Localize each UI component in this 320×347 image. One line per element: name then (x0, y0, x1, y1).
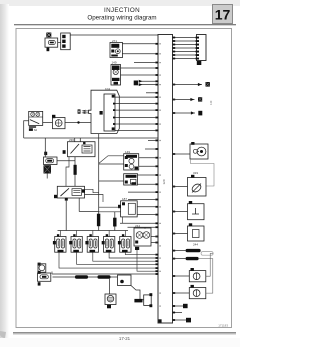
component Q: sensor block lower (118, 197, 137, 217)
bus wire main feed (24, 137, 158, 139)
pin U1 left 10 (155, 103, 158, 105)
component E: throttle position switch (29, 111, 43, 131)
wire A to solenoid (58, 42, 61, 44)
pin U1 left 21 (155, 191, 158, 193)
wire to U1 pin 27 (128, 226, 156, 228)
right side wire y84.5 to terminal (173, 82, 210, 87)
coil symbol box with X (44, 165, 52, 173)
wire N to splice loop 1 (85, 189, 99, 192)
wire F to G with junction (65, 122, 91, 124)
svg-text:17: 17 (215, 7, 231, 23)
pin U1 left 31 (155, 260, 158, 262)
wire to U1 pin 12 (115, 109, 155, 111)
wire U1 to X1 7 (173, 58, 197, 60)
ground block below connector (197, 61, 202, 65)
component T: ignition coil unit (38, 263, 51, 286)
pin U1 left 26 (155, 226, 158, 228)
pin number mark 13 (159, 206, 161, 207)
wire N loop 3 (79, 211, 99, 213)
wire to U1 pin 16 (148, 139, 155, 141)
wire relay2 to ECU (77, 252, 156, 264)
wire to U1 pin 18 (139, 157, 156, 159)
diagram outer frame (16, 29, 232, 328)
pin U1 left 8 (155, 92, 158, 94)
wire to U1 pin 2 (122, 43, 155, 45)
wire K output (57, 160, 75, 162)
svg-text:244: 244 (193, 243, 198, 247)
pin U1 left 29 (155, 254, 158, 256)
wire idle motor to AC unit loop (191, 159, 215, 186)
pin number mark 18 (159, 293, 161, 294)
pin number mark 16 (159, 258, 161, 259)
wire loop sensor 1 to splice (206, 253, 213, 276)
svg-text:62: 62 (34, 128, 38, 132)
oxygen sensor unit 2 (173, 259, 213, 299)
pin U1 left 23 (155, 206, 158, 208)
wire U1 to X1 2 (173, 40, 197, 42)
component cluster A: fuse and solenoid top-left (45, 33, 70, 52)
ECU inner pin number marks (159, 43, 161, 307)
wire Q bottom to ECU feed (122, 217, 124, 223)
wire S6 top feed (144, 227, 146, 229)
relay S2 (69, 231, 82, 253)
svg-text:Operating wiring diagram: Operating wiring diagram (87, 15, 156, 22)
pin number mark 12 (159, 192, 161, 193)
component J: supply relay (63, 138, 95, 157)
wire bus to relay J second (74, 138, 76, 142)
relay S4 (102, 231, 115, 253)
wire to U1 pin 28 (151, 236, 158, 238)
component K: relay with coil (44, 152, 58, 179)
vertical wire K to bus (44, 138, 46, 157)
node H: double arrow reference terminal (78, 109, 89, 114)
pin U1 left 20 (155, 183, 158, 185)
wire to U1 pin 26 (120, 222, 155, 224)
component G: main relay/connector block (89, 87, 120, 134)
wire U1 to X1 1 (173, 37, 197, 39)
wire relay4 to ECU (109, 252, 155, 258)
pin number mark 14 (159, 223, 161, 224)
pin U1 left 27 (155, 236, 158, 238)
pin U1 right 8 (173, 84, 176, 86)
splice R2 thick vertical (113, 212, 116, 231)
pin U1 left 32 (155, 263, 158, 265)
bundle wires relays to ECU (52, 250, 155, 274)
component B: pressure sensor block (110, 39, 123, 58)
wire relay3 to ECU (93, 252, 156, 261)
pin number mark 17 (159, 271, 161, 272)
wire E to F (43, 122, 53, 124)
splice connector 1 (75, 275, 88, 279)
diagnostic connector X1 (196, 35, 206, 66)
wire ECU to splice bar 1 (173, 250, 186, 252)
wires from N down (65, 201, 67, 231)
pin number mark 19 (159, 306, 161, 307)
svg-text:244: 244 (135, 224, 140, 228)
svg-text:271: 271 (112, 39, 117, 43)
pin number mark 2 (159, 53, 161, 54)
right side wire y113 to terminal (173, 111, 203, 116)
pin U1 left 28 (155, 242, 158, 244)
svg-text:120: 120 (162, 179, 166, 184)
sensor unit y233 (173, 223, 205, 246)
pin U1 left 7 (155, 84, 158, 86)
wire loop sensor 2 to splice (199, 259, 213, 294)
pin U1 right 4 (173, 47, 176, 49)
wire J to N elbow (66, 157, 69, 187)
pin U1 left 33 (155, 267, 158, 269)
wire to U1 pin 21 (138, 183, 156, 185)
wire to U1 pin 17 (145, 148, 155, 150)
wire to U1 pin 24 (137, 206, 155, 208)
wire relay5 to ECU (125, 252, 155, 254)
wire to U1 pin 23 (128, 199, 155, 201)
wire to U1 pin 7 (139, 80, 156, 82)
pin U1 left 15 (155, 140, 158, 142)
component N: ignition switch module (54, 186, 85, 200)
wire to U1 pin 8 (139, 84, 156, 86)
ground mark (47, 48, 50, 52)
pin U1 left 13 (155, 123, 158, 125)
pin U1 right 16 (173, 258, 176, 260)
sensor unit y211 (173, 201, 205, 220)
wire to U1 pin 1 (70, 34, 158, 36)
wire ECU to splice bar 2 (173, 258, 186, 260)
svg-text:INJECTION: INJECTION (104, 7, 140, 14)
wire bus to relay J (79, 138, 81, 142)
wire to U1 pin 25 (137, 214, 155, 216)
wire to U1 pin 10 (115, 96, 155, 98)
page bottom border line (13, 332, 236, 333)
pin U1 left 4 (155, 67, 158, 69)
component P: sensor block (124, 174, 138, 185)
wire N right lower branch (85, 195, 104, 203)
idle speed stepper motor (173, 142, 215, 186)
wire coil feed to ECU (52, 272, 155, 275)
component F: sensor with cross circle (52, 115, 65, 129)
component C: temperature sensor block (111, 61, 121, 85)
pin U1 right 12 (173, 186, 176, 188)
relay row: five injector/relay boxes (53, 231, 131, 253)
pin U1 left 17 (155, 157, 158, 159)
svg-text:171183: 171183 (218, 324, 228, 328)
pin number mark 4 (159, 75, 161, 76)
wire feed O (99, 163, 124, 165)
ECU U1 main computer box (158, 35, 173, 324)
pin U1 left 16 (155, 148, 158, 150)
solenoid box (45, 38, 58, 47)
wire to U1 pin 29 (151, 242, 158, 244)
component V: sensor right of distributor (131, 286, 152, 308)
pin U1 right 5 (173, 51, 176, 53)
relay S5 (118, 231, 131, 253)
component U: junction box with dot (118, 275, 132, 286)
pin U1 left 9 (155, 96, 158, 98)
pin U1 left 11 (155, 109, 158, 111)
pin number mark 6 (159, 97, 161, 98)
wire to U1 pin 15 (115, 129, 155, 131)
pin U1 right 11 (173, 153, 176, 155)
svg-text:149: 149 (125, 150, 130, 154)
splice connector 2 (98, 275, 111, 279)
wire U1 to X1 6 (173, 54, 197, 56)
ECU left edge pins (155, 43, 158, 275)
pin number mark 7 (159, 110, 161, 111)
relay S3 (85, 231, 98, 253)
pin U1 right 13 (173, 211, 176, 213)
wire relay1 to ECU (59, 252, 155, 268)
svg-text:319: 319 (193, 171, 198, 175)
pin number mark 3 (159, 62, 161, 63)
pin number mark 1 (159, 43, 161, 44)
pin U1 left 25 (155, 222, 158, 224)
pin number mark 15 (159, 245, 161, 246)
wire to U1 pin 19 (139, 165, 156, 167)
wire to U1 pin 6 (121, 74, 156, 76)
wire to U1 pin 3 (122, 53, 155, 55)
wire E left feed (24, 121, 29, 138)
pin U1 left 18 (155, 165, 158, 167)
ECU right edge pins bottom (173, 305, 176, 321)
pin U1 left 35 (155, 273, 158, 275)
svg-text:187: 187 (122, 197, 127, 201)
pin U1 right 15 (173, 250, 176, 252)
pin U1 left 19 (155, 174, 158, 176)
ECU bottom corner pin (158, 319, 161, 322)
pin U1 right 2 (173, 40, 176, 42)
pin U1 left 3 (155, 62, 158, 64)
wire feed O top diagonal (99, 156, 124, 164)
pin U1 left 2 (155, 53, 158, 55)
component O: motor with circles (124, 150, 139, 170)
svg-text:17-21: 17-21 (119, 336, 131, 341)
ECU right edge pin ticks (173, 37, 176, 294)
AC compressor unit (173, 171, 207, 196)
pin number mark 9 (159, 140, 161, 141)
pin U1 left 12 (155, 117, 158, 119)
svg-text:149: 149 (112, 61, 117, 65)
right side wire y99.5 to terminal (173, 97, 213, 105)
pin U1 right 9 (173, 99, 176, 101)
component S6: twin solenoid box right of relays (134, 224, 151, 250)
pin U1 left 1 (155, 43, 158, 45)
pin U1 left 24 (155, 214, 158, 216)
wire S6 ground branch to ECU (137, 250, 155, 271)
pin U1 left 14 (155, 130, 158, 132)
pin U1 left 6 (155, 80, 158, 82)
pin number mark 5 (159, 84, 161, 85)
connector R: thick vertical splice (97, 134, 100, 231)
relay S1 (53, 231, 66, 253)
main HT wire with splices (53, 275, 118, 279)
ground terminal y320 (186, 318, 191, 323)
pin U1 left 34 (155, 270, 158, 272)
harness splice bar 1 (186, 249, 214, 255)
pin U1 right 18 (173, 292, 176, 294)
node D: double arrow terminal (134, 80, 143, 86)
svg-text:236: 236 (69, 138, 74, 142)
pin U1 right 10 (173, 112, 176, 114)
pin U1 right 3 (173, 44, 176, 46)
junction node (77, 121, 79, 123)
harness splice bar 2 (186, 257, 199, 260)
scanned page top edge band (0, 0, 240, 6)
pin U1 left 22 (155, 199, 158, 201)
wire vertical with connector M (74, 157, 77, 187)
wire U1 to X1 3 (173, 44, 197, 46)
pin U1 right 17 (173, 275, 176, 277)
page background (0, 0, 240, 347)
svg-text:149: 149 (209, 100, 213, 105)
connector box (61, 33, 70, 50)
wire U1 to X1 5 (173, 51, 197, 53)
wire to U1 pin 22 (128, 191, 155, 193)
page number box 17 (213, 5, 233, 24)
relay bottom pins (58, 250, 128, 253)
wire feed Q lower (99, 211, 121, 213)
wire to U1 pin 14 (115, 123, 155, 125)
wire to U1 pin 11 (115, 103, 155, 105)
wire to U1 pin 9 (146, 92, 155, 94)
wire U1 to X1 4 (173, 47, 197, 49)
fuse F1 black square (46, 33, 51, 38)
component W: distributor bottom (105, 279, 116, 309)
pin number mark 8 (159, 124, 161, 125)
pin U1 right 6 (173, 54, 176, 56)
pin number mark 11 (159, 175, 161, 176)
ground terminal y306 (173, 304, 188, 308)
right edge pin wires bottom (173, 313, 187, 321)
relay row bus top (58, 230, 129, 232)
svg-text:104: 104 (105, 87, 110, 91)
oxygen sensor unit 1 (173, 253, 214, 281)
ECU top-right harness wires to connector (173, 38, 197, 59)
wire to U1 pin 20 (138, 174, 156, 176)
wire to U1 pin 13 (115, 117, 155, 119)
pin U1 right 7 (173, 58, 176, 60)
wire to U1 pin 4 (134, 62, 155, 64)
ECU left pin wires (70, 35, 158, 243)
pin U1 right 14 (173, 233, 176, 235)
pin U1 left 30 (155, 257, 158, 259)
pin U1 right 1 (173, 37, 176, 39)
bottom-left rounded page corner (0, 331, 6, 338)
pin number mark 10 (159, 157, 161, 158)
wire feed Q upper (99, 206, 121, 208)
pin U1 left 5 (155, 74, 158, 76)
wire feed P (99, 180, 124, 182)
wire to U1 pin 5 (121, 67, 156, 69)
header separator line (14, 24, 236, 26)
